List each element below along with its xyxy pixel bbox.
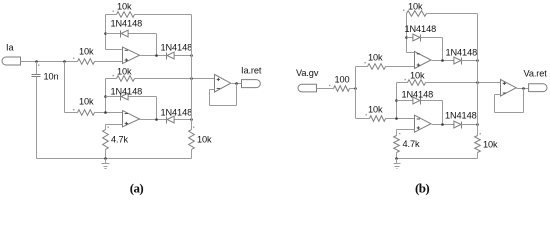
node	[155, 118, 158, 121]
wire	[105, 79, 107, 113]
wire	[523, 89, 525, 113]
svg-text:10k: 10k	[197, 135, 212, 145]
capacitor C1 10n	[32, 65, 59, 82]
node	[441, 123, 444, 126]
node cap junction	[35, 60, 38, 63]
wire	[397, 129, 415, 131]
wire	[95, 112, 123, 114]
label (a)	[130, 181, 144, 196]
wire	[106, 33, 121, 35]
node	[190, 54, 193, 57]
svg-text:Ia.ret: Ia.ret	[241, 66, 262, 76]
wire	[477, 14, 479, 136]
svg-text:(b): (b)	[415, 181, 429, 196]
node	[104, 32, 107, 35]
wire	[191, 15, 193, 130]
wire	[156, 34, 158, 56]
wire	[386, 66, 415, 68]
wire	[396, 83, 398, 119]
wire	[37, 158, 192, 160]
wire	[350, 88, 356, 90]
svg-text:1N4148: 1N4148	[111, 87, 143, 97]
diode D5 1N4148	[405, 24, 437, 42]
diode D2 1N4148	[161, 43, 193, 60]
svg-text:10k: 10k	[483, 140, 498, 150]
wire	[426, 82, 501, 84]
svg-text:1N4148: 1N4148	[445, 111, 477, 121]
diode D4 1N4148	[161, 108, 193, 124]
wire	[495, 112, 524, 114]
wire	[397, 82, 408, 84]
node	[235, 82, 238, 85]
resistor R11 10k	[366, 105, 386, 122]
node	[395, 117, 398, 120]
wire	[396, 153, 398, 159]
node	[405, 36, 408, 39]
resistor R8 10k	[365, 53, 386, 70]
svg-text:10k: 10k	[117, 2, 132, 12]
wire	[494, 95, 496, 113]
wire	[36, 77, 38, 159]
wire	[421, 37, 443, 39]
wire	[442, 38, 444, 61]
resistor R3 10k	[113, 67, 135, 82]
resistor R6 10k	[189, 127, 212, 150]
wire	[427, 13, 478, 15]
node	[354, 87, 357, 90]
wire	[407, 52, 415, 54]
node	[395, 99, 398, 102]
wire	[106, 124, 123, 126]
svg-text:10k: 10k	[79, 97, 94, 107]
wire	[65, 112, 78, 114]
wire	[64, 62, 66, 113]
wire	[462, 124, 478, 126]
wire	[432, 60, 454, 62]
node	[104, 157, 107, 160]
node	[155, 54, 158, 57]
wire	[106, 96, 121, 98]
wire	[105, 15, 107, 50]
wire	[442, 101, 444, 125]
svg-text:10k: 10k	[368, 105, 383, 115]
resistor R2 10k	[113, 2, 135, 18]
node	[441, 59, 444, 62]
node input split	[63, 60, 66, 63]
wire	[236, 84, 238, 106]
wire	[386, 118, 415, 120]
wire	[95, 61, 123, 63]
svg-text:1N4148: 1N4148	[111, 19, 143, 29]
wire	[106, 78, 117, 80]
wire	[397, 158, 478, 160]
op-amp U2	[123, 111, 140, 127]
diode D8 1N4148	[445, 111, 477, 129]
node	[476, 123, 479, 126]
svg-text:4.7k: 4.7k	[403, 139, 420, 149]
wire	[135, 78, 215, 80]
wire	[495, 94, 501, 96]
wire	[140, 55, 167, 57]
ground	[102, 159, 110, 169]
op-amp U3	[215, 74, 231, 92]
op-amp U4	[415, 52, 431, 69]
wire	[106, 49, 123, 51]
svg-text:10k: 10k	[368, 53, 383, 63]
wire	[517, 88, 529, 90]
svg-text:10k: 10k	[79, 47, 94, 57]
diode D3 1N4148	[111, 87, 143, 101]
node	[395, 157, 398, 160]
diode D7 1N4148	[402, 90, 434, 105]
wire	[406, 14, 408, 53]
wire	[317, 88, 334, 90]
op-amp U6	[501, 80, 517, 97]
wire	[407, 37, 414, 39]
wire	[397, 100, 414, 102]
node	[522, 87, 525, 90]
svg-text:1N4148: 1N4148	[161, 108, 193, 118]
svg-text:1N4148: 1N4148	[446, 48, 478, 58]
ground	[394, 159, 401, 169]
svg-text:10k: 10k	[410, 71, 425, 81]
svg-text:1N4148: 1N4148	[402, 90, 434, 100]
wire	[191, 150, 193, 159]
wire	[356, 66, 368, 68]
node	[190, 77, 193, 80]
wire	[210, 89, 215, 91]
io port Va.ret	[524, 69, 548, 92]
svg-text:4.7k: 4.7k	[111, 135, 128, 145]
resistor R4 10k	[73, 97, 95, 116]
label (b)	[415, 181, 429, 196]
wire	[232, 83, 242, 85]
io port Ia	[2, 43, 21, 66]
svg-text:1N4148: 1N4148	[161, 43, 193, 53]
svg-text:10k: 10k	[117, 67, 132, 77]
svg-text:100: 100	[335, 75, 350, 85]
resistor R13 10k	[475, 133, 498, 153]
diode D6 1N4148	[446, 48, 478, 65]
wire	[36, 62, 38, 75]
wire	[175, 55, 192, 57]
resistor R1 10k	[73, 47, 95, 65]
resistor R7 100	[329, 75, 350, 92]
op-amp U5	[415, 115, 431, 132]
resistor R9 10k	[403, 2, 427, 17]
wire	[129, 33, 157, 35]
wire	[156, 97, 158, 120]
node	[104, 95, 107, 98]
wire	[129, 96, 157, 98]
io port Va.gv	[296, 68, 319, 92]
node	[476, 81, 479, 84]
node	[190, 118, 193, 121]
svg-text:Va.gv: Va.gv	[296, 68, 319, 78]
wire	[396, 130, 398, 136]
wire	[21, 61, 78, 63]
svg-text:1N4148: 1N4148	[405, 24, 437, 34]
wire	[355, 67, 357, 119]
io port Ia.ret	[241, 66, 262, 88]
wire	[462, 60, 478, 62]
resistor R5 4.7k	[103, 127, 129, 150]
wire	[356, 118, 370, 120]
svg-text:10k: 10k	[408, 2, 423, 12]
op-amp U1	[123, 47, 140, 64]
wire	[105, 150, 107, 159]
wire	[421, 100, 443, 102]
resistor R12 4.7k	[394, 133, 420, 153]
diode D1 1N4148	[111, 19, 143, 38]
svg-text:Ia: Ia	[6, 43, 14, 53]
node	[104, 111, 107, 114]
wire	[140, 119, 167, 121]
wire	[209, 90, 211, 106]
wire	[477, 153, 479, 159]
wire	[106, 14, 117, 16]
node	[476, 59, 479, 62]
wire	[210, 105, 237, 107]
wire	[432, 124, 455, 126]
resistor R10 10k	[405, 71, 426, 86]
wire	[175, 119, 192, 121]
svg-text:Va.ret: Va.ret	[524, 69, 548, 79]
svg-text:(a): (a)	[130, 181, 144, 196]
svg-text:10n: 10n	[44, 72, 59, 82]
wire	[135, 14, 192, 16]
wire	[105, 125, 107, 130]
